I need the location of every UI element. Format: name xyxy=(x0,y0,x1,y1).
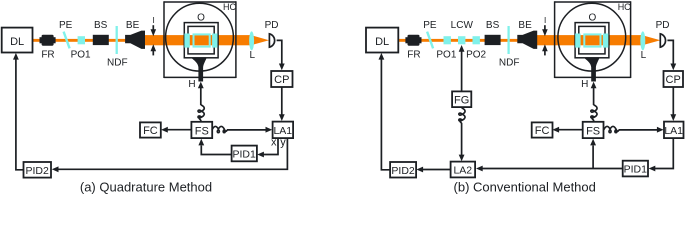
svg-text:FG: FG xyxy=(454,94,469,106)
svg-text:BE: BE xyxy=(126,20,140,31)
servo PID1 (b) xyxy=(623,161,648,177)
polarization optic PO2 (b) xyxy=(473,36,480,44)
svg-text:DL: DL xyxy=(375,36,389,48)
lens L (b) xyxy=(640,31,645,50)
svg-text:O: O xyxy=(197,13,205,24)
window right (b) xyxy=(603,34,608,48)
liquid crystal waveplate LCW (b) xyxy=(458,36,465,44)
svg-text:HC: HC xyxy=(618,2,631,12)
svg-text:BS: BS xyxy=(486,20,500,31)
svg-text:PE: PE xyxy=(59,20,73,31)
laser DL (b) xyxy=(366,28,398,53)
svg-text:LA1: LA1 xyxy=(273,125,292,137)
svg-text:PID2: PID2 xyxy=(26,165,50,177)
Faraday rotator FR (b) xyxy=(405,35,421,46)
iris aperture I (b) xyxy=(542,25,548,55)
svg-text:L: L xyxy=(250,50,256,61)
wire: laser beam (a) expanded segment BE to lens L xyxy=(144,35,253,45)
beam expander BE (a) xyxy=(125,31,145,49)
polarizer PE (b) tilted plate xyxy=(427,32,433,49)
window left (b) xyxy=(575,34,580,48)
wire: FS to LA1 (b) rf squiggle with arrow right xyxy=(604,126,664,132)
svg-text:FR: FR xyxy=(407,49,420,60)
svg-text:LA1: LA1 xyxy=(664,125,683,137)
svg-text:PID2: PID2 xyxy=(391,165,415,177)
sample cell (b) xyxy=(584,34,600,46)
current preamp CP (b) xyxy=(664,71,684,87)
svg-text:PO2: PO2 xyxy=(466,49,486,60)
svg-text:FR: FR xyxy=(41,49,54,60)
svg-text:O: O xyxy=(589,13,597,24)
wire: FS to LA1 (a) rf squiggle with arrow right xyxy=(212,126,272,132)
Faraday rotator FR (a) xyxy=(40,35,56,46)
svg-text:H: H xyxy=(188,79,195,90)
svg-text:I: I xyxy=(152,16,154,25)
svg-text:H: H xyxy=(581,79,588,90)
beam expander BE (b) xyxy=(517,31,537,49)
hollow cathode lamp circle (b) xyxy=(558,3,626,71)
wire: junction to FS (b) with arrow up xyxy=(590,139,596,169)
svg-text:PID1: PID1 xyxy=(233,149,257,161)
polarization optic PO1 (b) xyxy=(444,36,451,44)
window left (a) xyxy=(184,34,189,48)
wire: laser beam (b) thin segment DL to BE xyxy=(398,39,521,42)
svg-text:PD: PD xyxy=(656,20,670,31)
wire: LA1 y output to PID2 (a) long line with arrow left xyxy=(52,139,288,173)
beam sampler BS (b) xyxy=(485,35,501,45)
oven inner square (a) xyxy=(188,26,214,54)
svg-text:PID1: PID1 xyxy=(624,164,648,176)
wire: FS to FC (b) with arrow left xyxy=(552,127,582,133)
lens L (a) xyxy=(249,31,254,50)
svg-text:LCW: LCW xyxy=(451,20,474,31)
magnetic shield bracket (b) xyxy=(554,1,631,78)
wire: PID2 to DL (a) with arrow up xyxy=(13,53,24,170)
servo PID2 (a) xyxy=(24,162,52,178)
svg-text:(a) Quadrature Method: (a) Quadrature Method xyxy=(80,180,212,195)
wire: PD to CP (b) with arrow down xyxy=(667,40,676,70)
wire: PID1 (b) to LA2 with arrow left and junction xyxy=(476,166,623,172)
wire: PD to CP (a) with arrow down xyxy=(277,40,285,70)
hollow cathode lamp circle (a) xyxy=(166,3,234,71)
heater H (b) xyxy=(584,58,599,82)
photodiode PD (b) xyxy=(660,33,665,47)
svg-text:x: x xyxy=(271,137,277,149)
wire: CP to LA1 (b) with arrow down xyxy=(670,87,676,121)
svg-text:DL: DL xyxy=(10,36,24,48)
lock-in amplifier LA1 (b) xyxy=(664,122,684,139)
wire: PID2 (b) to DL (b) with arrow up xyxy=(379,53,391,170)
beam sampler BS (a) xyxy=(93,35,109,45)
svg-text:PO1: PO1 xyxy=(436,49,456,60)
frequency synthesizer FS (a) xyxy=(191,122,212,138)
oven outer square (b) xyxy=(575,23,609,58)
svg-text:PO1: PO1 xyxy=(71,49,91,60)
wire: FG to LCW with arrow up xyxy=(459,45,465,91)
servo PID2 (b) xyxy=(390,162,416,178)
svg-text:BE: BE xyxy=(518,20,532,31)
polarization optic PO1 (a) xyxy=(78,36,85,44)
oven outer square (a) xyxy=(184,23,218,58)
svg-text:CP: CP xyxy=(666,74,681,86)
svg-text:L: L xyxy=(641,50,647,61)
svg-text:FS: FS xyxy=(195,125,209,137)
svg-text:y: y xyxy=(280,137,286,149)
svg-text:FC: FC xyxy=(143,125,158,137)
magnetic shield bracket (a) xyxy=(164,1,236,78)
wire: FS to FC (a) with arrow left xyxy=(161,127,191,133)
lock-in amplifier LA2 xyxy=(451,162,476,178)
current preamp CP (a) xyxy=(271,71,292,87)
wire: LA1 x output to PID1 (a) with arrow left xyxy=(257,139,278,158)
laser DL (a) xyxy=(2,28,33,53)
heater H (a) xyxy=(191,58,206,82)
svg-text:CP: CP xyxy=(274,74,289,86)
wire: PID1 to FS (a) with arrow up xyxy=(198,139,231,155)
svg-text:LA2: LA2 xyxy=(453,165,472,177)
frequency synthesizer FS (b) xyxy=(583,122,604,138)
wire: converging beam (b) lens L to PD xyxy=(642,35,660,45)
window right (a) xyxy=(212,34,217,48)
wire: FG to LA2 squiggle with arrow down xyxy=(459,108,465,162)
svg-text:(b) Conventional Method: (b) Conventional Method xyxy=(454,180,596,195)
function generator FG xyxy=(452,91,471,107)
wire: heater to FS (a) with arrow up xyxy=(198,82,204,123)
svg-text:NDF: NDF xyxy=(107,58,128,69)
polarizer PE (a) tilted plate xyxy=(64,32,70,49)
servo PID1 (a) xyxy=(232,146,257,162)
svg-text:PE: PE xyxy=(423,20,437,31)
svg-text:FC: FC xyxy=(535,125,550,137)
oven inner square (b) xyxy=(579,26,605,54)
neutral density filter NDF (b) xyxy=(507,26,509,54)
frequency counter FC (b) xyxy=(532,122,553,137)
neutral density filter NDF (a) xyxy=(116,26,118,54)
svg-text:BS: BS xyxy=(94,20,108,31)
svg-text:PD: PD xyxy=(265,20,279,31)
wire: laser beam (b) expanded segment BE to lens L xyxy=(536,35,645,45)
photodiode PD (a) xyxy=(269,33,274,47)
sample cell (a) xyxy=(194,34,210,46)
wire: heater to FS (b) with arrow up xyxy=(591,82,597,123)
wire: LA2 to PID2 (b) with arrow left xyxy=(416,167,450,173)
svg-text:HC: HC xyxy=(223,2,236,12)
frequency counter FC (a) xyxy=(140,122,161,137)
wire: LA1 (b) to PID1 (b) with arrow left xyxy=(649,139,674,172)
wire: laser beam (a) thin segment DL to BE xyxy=(32,39,128,42)
lock-in amplifier LA1 (a) xyxy=(273,122,294,139)
svg-text:I: I xyxy=(544,16,546,25)
svg-text:FS: FS xyxy=(586,125,600,137)
svg-text:NDF: NDF xyxy=(499,58,520,69)
wire: converging beam (a) lens L to PD xyxy=(251,35,269,45)
iris aperture I (a) xyxy=(151,25,157,55)
wire: CP to LA1 (a) with arrow down xyxy=(279,87,285,121)
